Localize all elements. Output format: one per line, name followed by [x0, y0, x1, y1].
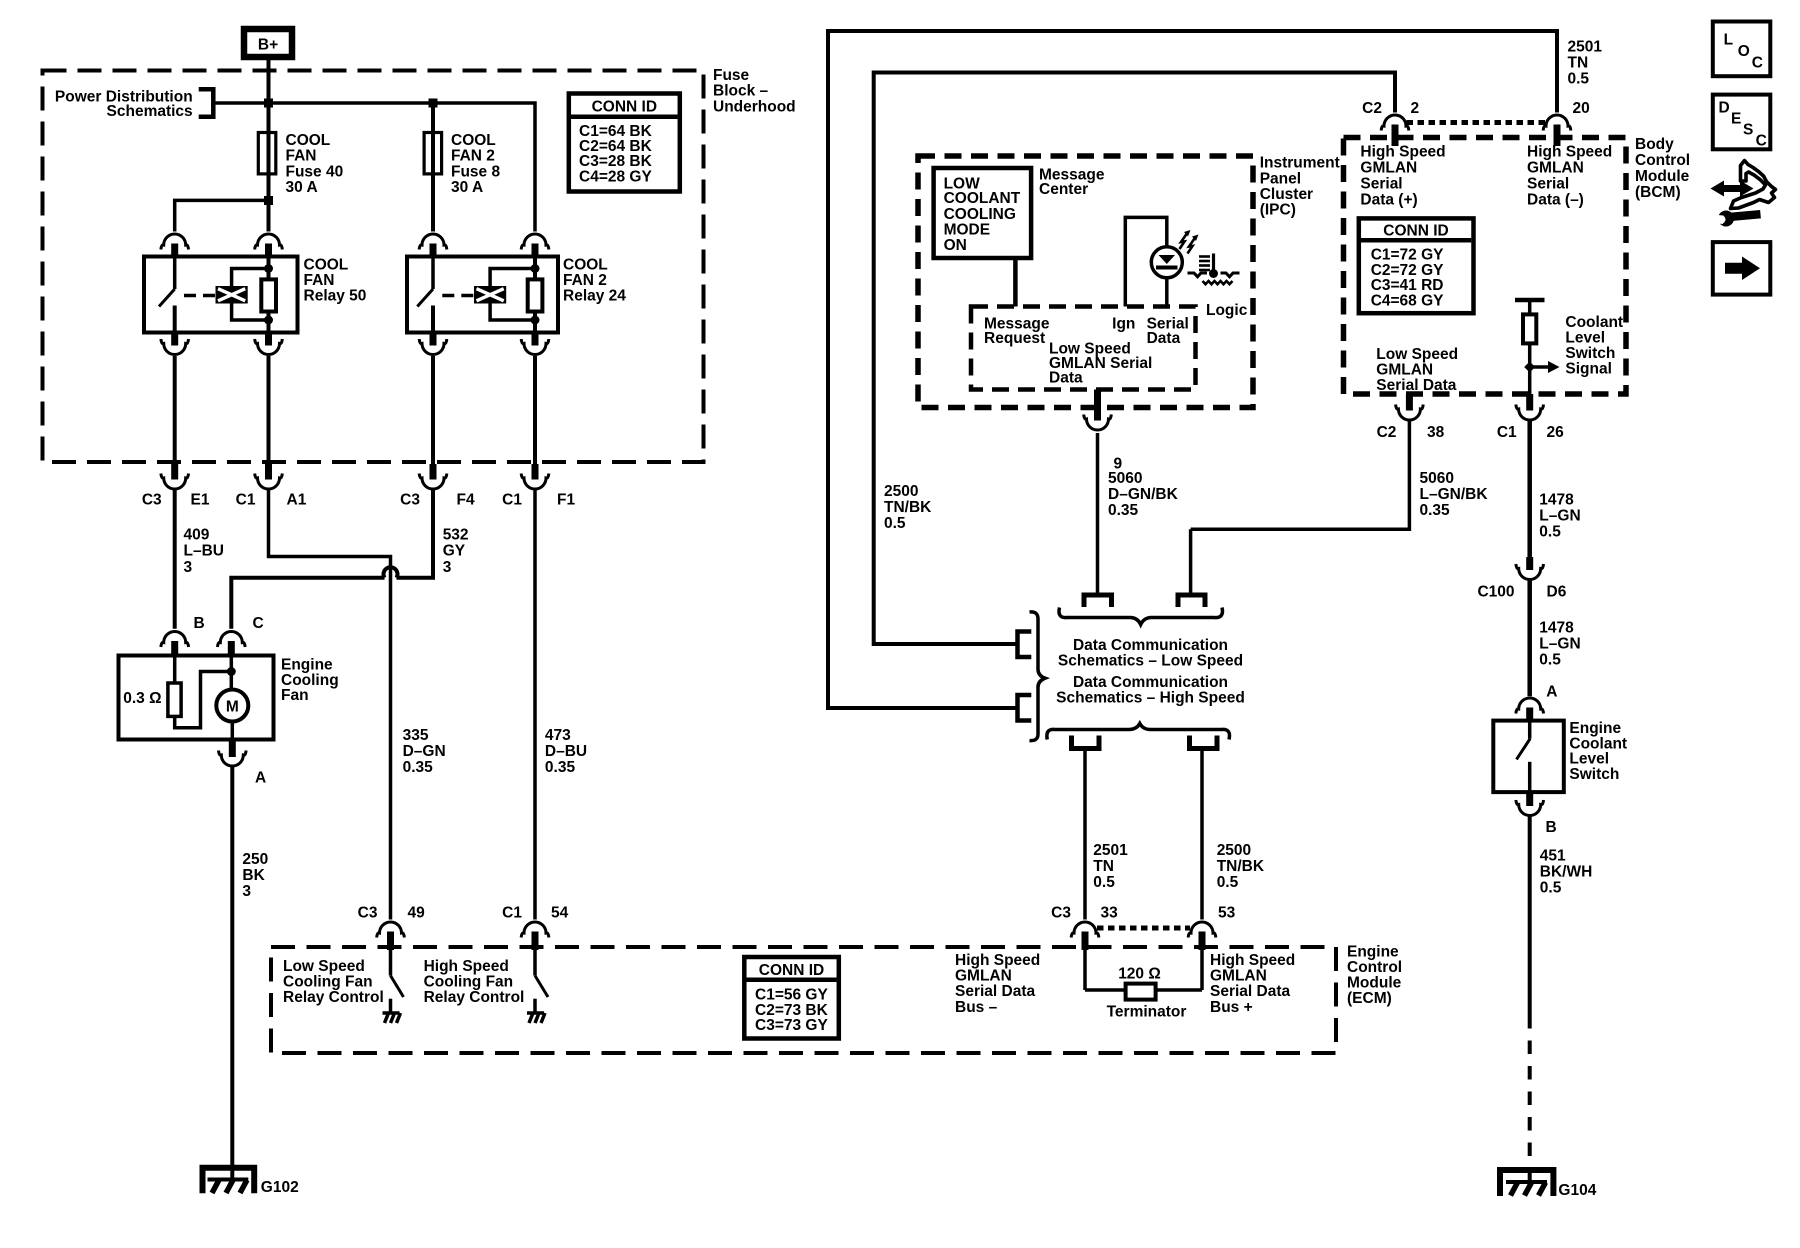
svg-text:0.5: 0.5 [1568, 71, 1590, 88]
label relay K50 [304, 256, 367, 304]
connector C2 pin 2 BCM [1362, 100, 1419, 146]
wire 2501 TN to pin 33 [1083, 751, 1087, 920]
svg-text:2: 2 [1411, 100, 1420, 117]
fuse block underhood dashed box [43, 71, 704, 463]
svg-text:(ECM): (ECM) [1347, 990, 1392, 1007]
svg-text:0.3 Ω: 0.3 Ω [123, 690, 161, 707]
svg-text:Center: Center [1039, 181, 1088, 198]
label body control module BCM [1635, 136, 1690, 201]
label message request [984, 316, 1050, 348]
label engine control module ECM [1347, 944, 1402, 1008]
wire 451 BK/WH solid [1528, 816, 1532, 1016]
svg-text:Relay Control: Relay Control [283, 989, 384, 1006]
service navigation icon [1711, 161, 1776, 227]
svg-text:FAN 2: FAN 2 [451, 148, 495, 165]
wire 1478 L-GN lower [1527, 580, 1532, 697]
connector C engine cooling fan [218, 615, 264, 656]
wire high speed gmlan serial data minus outer loop [828, 31, 1557, 708]
label message center [1039, 167, 1105, 199]
svg-text:C3: C3 [1051, 905, 1071, 922]
svg-text:E: E [1731, 111, 1741, 128]
wire 451 BK/WH dashed [1528, 1015, 1532, 1182]
label wire 1478 L-GN 0.5 lower [1539, 620, 1580, 669]
svg-text:0.5: 0.5 [1217, 874, 1239, 891]
svg-text:335: 335 [403, 727, 429, 744]
wire 532 GY 3 with crossover hop [231, 489, 433, 629]
DESC reference box [1713, 95, 1771, 150]
svg-text:33: 33 [1101, 905, 1119, 922]
svg-text:GMLAN: GMLAN [1527, 160, 1584, 177]
label high speed gmlan serial data minus [1527, 144, 1612, 209]
label engine coolant level switch [1569, 720, 1627, 783]
svg-text:Control: Control [1347, 959, 1402, 976]
svg-text:Bus –: Bus – [955, 999, 998, 1016]
wire 1478 L-GN upper [1527, 420, 1532, 557]
svg-text:C1: C1 [502, 905, 522, 922]
connector pin 53 [1188, 905, 1235, 951]
label high speed gmlan serial data bus minus [955, 952, 1040, 1016]
svg-text:Block –: Block – [713, 83, 769, 100]
svg-text:0.5: 0.5 [884, 515, 906, 532]
label wire 2501 TN 0.5 upper [1568, 39, 1603, 88]
svg-text:C2: C2 [1362, 100, 1382, 117]
svg-text:L: L [1724, 32, 1733, 49]
svg-text:GMLAN: GMLAN [1210, 968, 1267, 985]
svg-text:COOLING: COOLING [944, 206, 1016, 223]
svg-text:Switch: Switch [1569, 766, 1619, 783]
IPC dashed box [918, 156, 1253, 408]
connector arc below relay K24 right [521, 333, 549, 355]
svg-text:451: 451 [1540, 848, 1566, 865]
BCM CONN ID table [1359, 218, 1474, 313]
svg-text:TN/BK: TN/BK [1217, 858, 1265, 875]
svg-text:Level: Level [1565, 330, 1605, 347]
svg-text:2501: 2501 [1568, 39, 1603, 56]
svg-text:High Speed: High Speed [1210, 952, 1295, 969]
label engine cooling fan [281, 657, 339, 704]
svg-text:C3=73 GY: C3=73 GY [755, 1017, 828, 1034]
svg-text:C3: C3 [358, 905, 378, 922]
svg-text:3: 3 [443, 559, 452, 576]
svg-text:C100: C100 [1477, 584, 1514, 601]
brace bottom data communication [1047, 724, 1230, 740]
svg-text:0.5: 0.5 [1093, 874, 1115, 891]
wire relay K24 pin87 to fuse block edge [431, 356, 435, 464]
svg-text:Serial Data: Serial Data [1210, 983, 1291, 1000]
label wire 5060 D-GN/BK 0.35 [1108, 470, 1179, 519]
coolant temperature symbol [1188, 254, 1240, 285]
svg-text:High Speed: High Speed [1360, 144, 1445, 161]
svg-text:A: A [1546, 683, 1557, 700]
BCM dashed box [1344, 138, 1627, 395]
svg-text:L–GN: L–GN [1539, 508, 1580, 525]
dotted connector line 2-20 [1407, 120, 1546, 125]
svg-text:Data (–): Data (–) [1527, 192, 1584, 209]
fuse block CONN ID table [569, 94, 680, 192]
svg-text:Fuse: Fuse [713, 67, 750, 84]
wire fuse40 output branch [175, 200, 269, 231]
ground G102 [203, 1168, 255, 1194]
svg-text:(BCM): (BCM) [1635, 184, 1681, 201]
svg-text:54: 54 [551, 905, 569, 922]
svg-text:53: 53 [1218, 905, 1236, 922]
wire relay K50 pin87 to fuse block edge [173, 356, 177, 464]
switch high speed relay control driver [535, 950, 548, 1013]
svg-text:473: 473 [545, 727, 571, 744]
svg-text:C1: C1 [502, 492, 522, 509]
svg-text:F1: F1 [557, 492, 575, 509]
svg-text:Low Speed: Low Speed [1376, 346, 1458, 363]
svg-text:0.35: 0.35 [403, 759, 434, 776]
svg-text:C1=56 GY: C1=56 GY [755, 986, 828, 1003]
svg-text:F4: F4 [457, 492, 475, 509]
wire 409 L-BU 3 [173, 489, 177, 629]
label wire 5060 L-GN/BK 0.35 [1420, 470, 1489, 519]
resistor 0.3 ohm [123, 656, 181, 717]
wire 5060 L-GN/BK from pin 38 [1191, 420, 1410, 529]
svg-text:Instrument: Instrument [1260, 155, 1340, 172]
svg-text:120 Ω: 120 Ω [1118, 966, 1161, 983]
svg-text:High Speed: High Speed [424, 958, 509, 975]
svg-text:Schematics: Schematics [107, 103, 193, 120]
svg-text:C: C [253, 615, 264, 632]
svg-text:D–GN: D–GN [403, 743, 446, 760]
svg-text:C4=68 GY: C4=68 GY [1371, 292, 1444, 309]
ECM dashed box [271, 947, 1336, 1053]
connector arc below relay K50 right [255, 333, 283, 355]
ground symbol low speed driver [383, 1013, 401, 1023]
wire resistor to motor node [175, 672, 232, 728]
svg-text:FAN: FAN [304, 272, 335, 289]
dotted connector line 33-53 [1097, 926, 1190, 931]
clip lower right serial data [1190, 736, 1218, 749]
switch low speed relay control driver [391, 950, 404, 1013]
wire relay K24 pin85 to fuse block edge [533, 356, 537, 464]
svg-text:BK/WH: BK/WH [1540, 864, 1593, 881]
svg-text:C3: C3 [400, 492, 420, 509]
connector C2 pin 38 BCM bottom [1377, 394, 1445, 441]
wire 2500 TN/BK to pin 53 [1200, 751, 1204, 920]
label wire 335 D-GN 0.35 [403, 727, 446, 776]
svg-text:C3: C3 [142, 492, 162, 509]
svg-text:L–GN/BK: L–GN/BK [1420, 486, 1489, 503]
svg-text:D: D [1719, 100, 1730, 117]
IPC logic inner dashed box [971, 307, 1196, 390]
wire relay K50 pin85 to fuse block edge [267, 356, 271, 464]
svg-text:TN: TN [1568, 55, 1589, 72]
connector C100 pin D6 [1477, 557, 1566, 601]
low coolant cooling mode on box [934, 168, 1032, 258]
label fuse F8 [451, 132, 500, 196]
wire power distribution bus [215, 103, 535, 232]
wire 335 D-GN from A1 [269, 489, 391, 920]
svg-text:B: B [194, 615, 205, 632]
terminator 120 ohm [1085, 950, 1202, 1021]
connector C3 pin E1 [142, 464, 210, 509]
connector stub relay K24 left [430, 244, 437, 258]
svg-text:C4=28 GY: C4=28 GY [579, 168, 652, 185]
svg-text:0.5: 0.5 [1540, 880, 1562, 897]
svg-text:5060: 5060 [1420, 470, 1454, 487]
LED indicator [1151, 247, 1182, 307]
svg-text:O: O [1738, 43, 1750, 60]
connector B engine cooling fan [161, 615, 205, 656]
svg-text:CONN ID: CONN ID [759, 962, 824, 979]
svg-text:Fuse 40: Fuse 40 [286, 163, 344, 180]
ECM CONN ID table [744, 957, 839, 1039]
clip upper right serial data [1178, 595, 1205, 607]
svg-text:High Speed: High Speed [955, 952, 1040, 969]
svg-text:409: 409 [184, 527, 210, 544]
label wire 2500 TN/BK 0.5 lower [1217, 842, 1265, 891]
svg-text:GY: GY [443, 543, 466, 560]
connector arc above relay K50 pin 85 [255, 234, 283, 250]
svg-text:Request: Request [984, 330, 1045, 347]
svg-text:Data: Data [1049, 369, 1083, 386]
wire 250 BK 3 [230, 766, 234, 1178]
label wire 451 BK/WH 0.5 [1540, 848, 1593, 897]
label wire 473 D-BU 0.35 [545, 727, 587, 776]
label instrument panel cluster [1260, 155, 1340, 219]
svg-text:0.35: 0.35 [1108, 502, 1139, 519]
svg-text:C: C [1756, 133, 1767, 150]
bracket to data communication high speed [1018, 695, 1032, 721]
svg-text:Switch: Switch [1565, 345, 1615, 362]
svg-text:Module: Module [1347, 975, 1402, 992]
svg-text:Fan: Fan [281, 687, 309, 704]
connector C3 pin 33 [1051, 905, 1118, 951]
clip upper left serial data [1084, 595, 1112, 607]
connector stub relay K50 right [265, 244, 272, 258]
label relay K24 [563, 256, 626, 304]
connector C1 pin 54 [502, 905, 568, 951]
svg-text:FAN 2: FAN 2 [563, 272, 607, 289]
connector arc above relay K50 pin 86 [161, 234, 189, 250]
connector arc below relay K24 left [419, 333, 447, 355]
svg-text:GMLAN: GMLAN [1376, 362, 1433, 379]
label coolant level switch signal [1565, 314, 1623, 378]
svg-text:2500: 2500 [1217, 842, 1251, 859]
svg-text:Module: Module [1635, 168, 1690, 185]
wire message request [1013, 258, 1018, 307]
connector C1 pin F1 [502, 464, 575, 509]
svg-text:COOLANT: COOLANT [944, 190, 1021, 207]
svg-text:Data: Data [1147, 330, 1181, 347]
svg-text:S: S [1743, 122, 1753, 139]
svg-text:Serial: Serial [1527, 176, 1569, 193]
connector C1 pin A1 [236, 464, 307, 509]
label wire 1478 L-GN 0.5 upper [1539, 492, 1580, 541]
svg-text:1478: 1478 [1539, 620, 1574, 637]
svg-text:Serial: Serial [1360, 176, 1402, 193]
label wire 2500 TN/BK 0.5 left [884, 483, 932, 532]
svg-text:COOL: COOL [563, 256, 608, 273]
svg-text:MODE: MODE [944, 222, 991, 239]
LOC reference box [1713, 22, 1771, 77]
svg-text:Cooling Fan: Cooling Fan [424, 974, 514, 991]
svg-text:COOL: COOL [304, 256, 349, 273]
svg-text:Low Speed: Low Speed [283, 958, 365, 975]
svg-text:D6: D6 [1547, 584, 1567, 601]
svg-text:Terminator: Terminator [1107, 1004, 1187, 1021]
svg-text:Logic: Logic [1206, 302, 1248, 319]
svg-text:5060: 5060 [1108, 470, 1142, 487]
label wire 250 BK 3 [242, 851, 268, 900]
svg-text:G104: G104 [1558, 1182, 1596, 1199]
svg-text:M: M [226, 699, 239, 716]
svg-text:Schematics – Low Speed: Schematics – Low Speed [1058, 653, 1243, 670]
svg-text:3: 3 [184, 559, 193, 576]
svg-text:38: 38 [1427, 424, 1445, 441]
svg-text:L–GN: L–GN [1539, 636, 1580, 653]
label wire 2501 TN 0.5 lower [1093, 842, 1128, 891]
svg-text:GMLAN: GMLAN [1360, 160, 1417, 177]
svg-text:Serial Data: Serial Data [1376, 377, 1457, 394]
label high speed cooling fan relay control [424, 958, 525, 1006]
wire B+ feed [267, 60, 271, 103]
svg-text:(IPC): (IPC) [1260, 202, 1296, 219]
svg-text:Fuse 8: Fuse 8 [451, 163, 500, 180]
bracket to data communication low speed [1018, 632, 1032, 658]
svg-text:1478: 1478 [1539, 492, 1574, 509]
svg-text:Body: Body [1635, 136, 1674, 153]
label low speed gmlan serial data BCM [1376, 346, 1458, 394]
svg-text:C: C [1752, 55, 1763, 72]
svg-text:532: 532 [443, 527, 469, 544]
svg-text:Relay 24: Relay 24 [563, 288, 626, 305]
label high speed gmlan serial data bus plus [1210, 952, 1295, 1016]
svg-text:L–BU: L–BU [184, 543, 224, 560]
svg-text:Serial Data: Serial Data [955, 983, 1036, 1000]
svg-text:Panel: Panel [1260, 171, 1301, 188]
junction dot at fuse 8 [429, 99, 438, 108]
svg-text:CONN ID: CONN ID [1383, 222, 1448, 239]
svg-text:B: B [1546, 819, 1557, 836]
svg-text:Coolant: Coolant [1565, 314, 1623, 331]
svg-text:CONN ID: CONN ID [592, 99, 657, 116]
label wire 409 L-BU 3 [184, 527, 224, 576]
engine cooling fan box [119, 656, 274, 740]
connector A engine cooling fan [219, 740, 267, 787]
wire ign [1125, 217, 1167, 306]
svg-text:C1: C1 [1497, 424, 1517, 441]
relay K50 COOL FAN Relay 50 [144, 257, 298, 333]
svg-text:0.5: 0.5 [1539, 524, 1561, 541]
svg-text:FAN: FAN [286, 148, 317, 165]
label low speed gmlan serial data IPC [1049, 340, 1152, 386]
connector C1 pin 26 BCM bottom [1497, 394, 1564, 441]
fuse F40 [258, 103, 276, 232]
connector pin 20 BCM [1543, 100, 1590, 146]
svg-text:0.35: 0.35 [1420, 502, 1451, 519]
svg-text:E1: E1 [191, 492, 210, 509]
ground symbol high speed driver [527, 1013, 545, 1023]
svg-text:Data Communication: Data Communication [1073, 674, 1228, 691]
svg-text:C2: C2 [1377, 424, 1397, 441]
svg-text:TN: TN [1093, 858, 1114, 875]
label high speed gmlan serial data plus [1360, 144, 1445, 209]
connector pin 9 IPC [1084, 390, 1123, 473]
svg-text:G102: G102 [261, 1179, 299, 1196]
connector arc above relay K24 pin 86 [419, 234, 447, 250]
svg-text:GMLAN: GMLAN [955, 968, 1012, 985]
svg-text:Cluster: Cluster [1260, 186, 1313, 203]
svg-text:TN/BK: TN/BK [884, 499, 932, 516]
wire high speed gmlan serial data plus inner loop [874, 73, 1395, 645]
svg-text:20: 20 [1573, 100, 1590, 117]
svg-text:0.5: 0.5 [1539, 652, 1561, 669]
ground G104 [1500, 1170, 1553, 1196]
svg-text:Underhood: Underhood [713, 99, 796, 116]
label fuse F40 [286, 132, 344, 196]
connector A coolant level switch [1516, 683, 1558, 722]
svg-text:26: 26 [1547, 424, 1565, 441]
wire 5060 D-GN/BK to clip [1096, 433, 1100, 595]
junction dot at fuse 40 [264, 99, 273, 108]
svg-text:30 A: 30 A [286, 179, 318, 196]
wire 5060 L-GN/BK to clip [1189, 529, 1193, 595]
power distribution bracket [199, 89, 214, 116]
label power distribution schematics [55, 89, 193, 121]
svg-text:C3=41 RD: C3=41 RD [1371, 277, 1444, 294]
connector stub relay K50 left [171, 244, 178, 258]
connector C3 pin F4 [400, 464, 475, 509]
svg-text:Data (+): Data (+) [1360, 192, 1417, 209]
svg-text:Bus +: Bus + [1210, 999, 1253, 1016]
svg-text:Relay 50: Relay 50 [304, 288, 367, 305]
svg-text:2501: 2501 [1093, 842, 1128, 859]
svg-text:3: 3 [242, 883, 251, 900]
svg-text:2500: 2500 [884, 483, 918, 500]
svg-text:0.35: 0.35 [545, 759, 576, 776]
engine coolant level switch box [1493, 721, 1564, 793]
relay K24 COOL FAN 2 Relay 24 [407, 257, 558, 333]
junction dot fuse40 branch [264, 196, 273, 205]
svg-text:A: A [255, 770, 266, 787]
svg-text:30 A: 30 A [451, 179, 483, 196]
svg-text:COOL: COOL [451, 132, 496, 149]
svg-text:Relay Control: Relay Control [424, 989, 525, 1006]
svg-text:C1: C1 [236, 492, 256, 509]
label data communication schematics [1056, 637, 1245, 707]
svg-text:A1: A1 [287, 492, 307, 509]
motor M [216, 656, 248, 740]
connector arc below relay K50 left [161, 333, 189, 355]
svg-text:49: 49 [408, 905, 426, 922]
svg-text:Cooling Fan: Cooling Fan [283, 974, 373, 991]
svg-text:D–GN/BK: D–GN/BK [1108, 486, 1179, 503]
svg-text:BK: BK [242, 867, 265, 884]
fuse F8 [424, 103, 442, 232]
B+ terminal [244, 29, 292, 57]
svg-text:ON: ON [944, 237, 967, 254]
connector stub relay K24 right [532, 244, 539, 258]
coolant level switch signal circuit in BCM [1515, 300, 1560, 394]
svg-text:High Speed: High Speed [1527, 144, 1612, 161]
svg-text:Ign: Ign [1112, 316, 1135, 333]
connector arc above relay K24 pin 85 [521, 234, 549, 250]
label fuse block underhood [713, 67, 796, 116]
page navigation arrow box [1713, 242, 1771, 295]
svg-text:Data Communication: Data Communication [1073, 637, 1228, 654]
label low speed cooling fan relay control [283, 958, 384, 1006]
svg-text:B+: B+ [258, 37, 278, 54]
label serial data IPC [1147, 316, 1189, 348]
svg-text:250: 250 [242, 851, 268, 868]
svg-text:D–BU: D–BU [545, 743, 587, 760]
junction dot at motor node [227, 667, 236, 676]
svg-text:Signal: Signal [1565, 361, 1612, 378]
